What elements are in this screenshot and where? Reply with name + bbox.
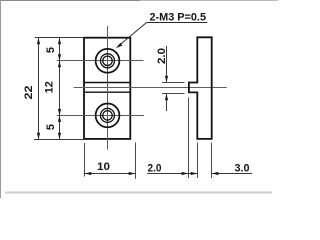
rib edge lines (front view): [84, 83, 130, 93]
dimension 22 extension line bottom: [34, 139, 84, 141]
svg-text:2.0: 2.0: [148, 163, 162, 175]
svg-text:22: 22: [23, 86, 35, 100]
bottom dimension line 2.0: [147, 172, 197, 175]
dimension line 10: [85, 172, 136, 175]
vertical dimension line 2.0: [165, 46, 168, 111]
dimension 22 extension line top: [35, 37, 84, 39]
svg-text:5: 5: [45, 47, 57, 53]
bottom tapped hole M3: [96, 104, 120, 128]
leader line for thread note: [116, 23, 207, 49]
svg-text:12: 12: [43, 81, 55, 93]
bottom dimension extension lines: [189, 98, 212, 179]
svg-text:2.0: 2.0: [156, 48, 168, 64]
rib centerline across both views: [74, 87, 227, 89]
dimension line 22: [37, 38, 40, 140]
scan artifact bottom streak: [5, 192, 272, 194]
chain dimension line 5/12/5: [58, 38, 61, 140]
scan artifact top edge: [0, 0, 140, 2]
top hole horizontal centerline: [57, 60, 144, 62]
side view profile with tab: [189, 37, 212, 139]
svg-text:3.0: 3.0: [235, 163, 250, 175]
svg-text:10: 10: [97, 161, 110, 173]
front view plate outline: [84, 38, 130, 139]
svg-text:2-M3 P=0.5: 2-M3 P=0.5: [150, 11, 207, 23]
scan artifact left edge: [0, 0, 2, 198]
dimension 10 extension lines: [85, 143, 136, 179]
top tapped hole M3: [96, 49, 120, 73]
svg-text:5: 5: [45, 124, 57, 130]
vertical centerline of holes: [107, 26, 109, 150]
bottom dimension line 3.0: [212, 172, 253, 175]
vertical dimension 2.0 extension lines: [162, 83, 185, 94]
bottom hole horizontal centerline: [57, 115, 144, 117]
